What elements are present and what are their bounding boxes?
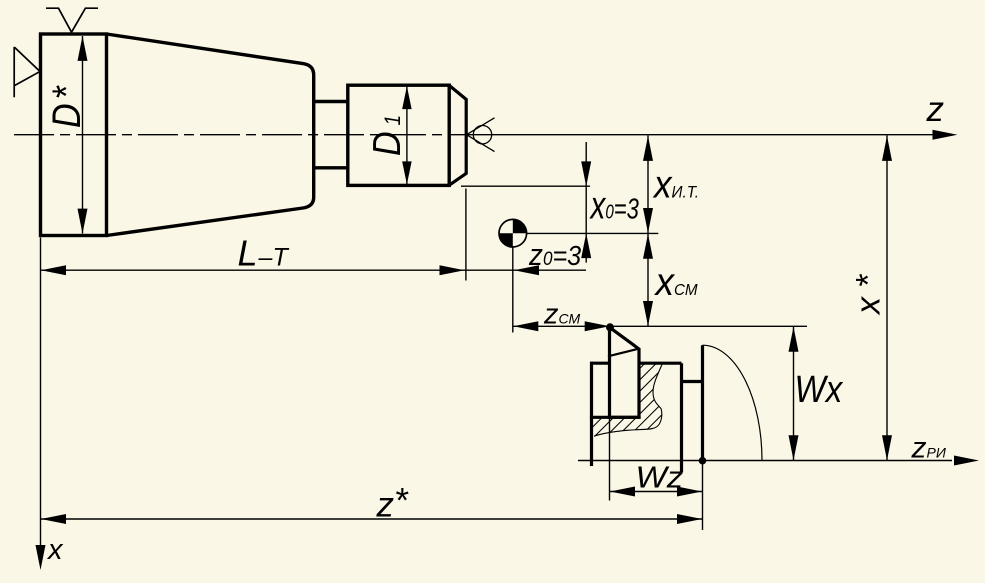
svg-text:Wx: Wx <box>795 368 844 411</box>
svg-text:x0=3: x0=3 <box>589 185 640 228</box>
svg-text:D*: D* <box>45 85 89 128</box>
svg-text:zРИ: zРИ <box>911 432 947 465</box>
svg-text:z: z <box>926 90 945 129</box>
svg-text:Wz: Wz <box>636 459 684 494</box>
svg-text:xСМ: xСМ <box>654 261 698 304</box>
svg-text:L–T: L–T <box>238 233 290 274</box>
svg-text:z*: z* <box>376 482 410 525</box>
svg-text:D1: D1 <box>365 115 409 156</box>
svg-text:xИ.Т.: xИ.Т. <box>652 162 699 206</box>
svg-text:z0=3: z0=3 <box>528 238 581 273</box>
svg-text:x: x <box>46 534 64 566</box>
svg-text:x*: x* <box>850 273 888 316</box>
svg-text:zСМ: zСМ <box>543 299 580 331</box>
